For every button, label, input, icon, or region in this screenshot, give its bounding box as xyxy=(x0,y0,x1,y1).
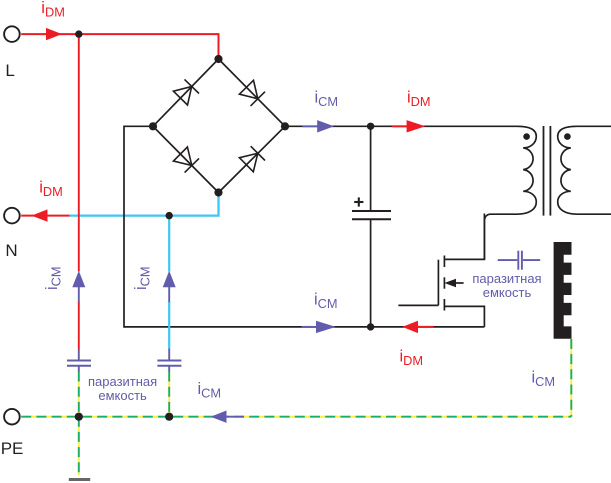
channel source segment xyxy=(443,299,445,311)
transformer T1 secondary xyxy=(558,126,611,214)
arrow iCM up left xyxy=(72,271,85,287)
node bridge right xyxy=(281,122,289,130)
wire DC+ rail xyxy=(285,125,517,127)
node PE junction 2 xyxy=(165,413,173,421)
ground symbol xyxy=(69,478,90,481)
wire ground dashed: heatsink down xyxy=(570,339,572,417)
wire leakage path from L (red vertical) xyxy=(78,34,80,271)
wire ground dashed: PE horizontal xyxy=(21,416,571,418)
terminal PE xyxy=(4,409,20,425)
svg-text:емкость: емкость xyxy=(98,388,147,403)
diode D3 xyxy=(173,147,199,173)
gate lead xyxy=(398,304,438,306)
wire violet lead to cap 1 xyxy=(78,350,80,360)
svg-text:PE: PE xyxy=(1,439,24,458)
arrow iCM right on return xyxy=(302,326,317,328)
parasitic capacitor 1 plates xyxy=(67,360,91,362)
wire N cyan to bridge bottom xyxy=(70,193,219,216)
node primary phase dot xyxy=(523,133,530,140)
terminal N xyxy=(4,208,20,224)
diode D2 xyxy=(239,80,265,106)
svg-text:паразитная: паразитная xyxy=(88,374,157,389)
node L junction xyxy=(75,30,82,37)
svg-text:паразитная: паразитная xyxy=(472,271,541,286)
body arrow line xyxy=(454,282,464,284)
arrow iDM on L wire xyxy=(46,28,62,40)
channel body segment xyxy=(443,277,445,288)
wire violet tail below arrow 1 xyxy=(78,286,80,302)
heatsink xyxy=(554,242,572,339)
node bridge bottom xyxy=(214,188,222,196)
capacitor bulk leads xyxy=(370,126,372,210)
arrow iDM left on N wire xyxy=(32,209,48,221)
wire N red segment xyxy=(21,215,69,217)
arrow iCM left on PE line xyxy=(224,416,244,418)
wire leakage path 2 (cyan vertical) xyxy=(168,216,170,272)
diode D4 xyxy=(239,146,265,172)
wire ground dashed: cap1 down xyxy=(78,372,80,417)
wire L to bridge top (red) xyxy=(21,34,218,56)
parasitic capacitor 2 plates xyxy=(157,360,181,362)
terminal L xyxy=(4,26,20,42)
wire return path (black) xyxy=(124,126,484,327)
wire violet lead to cap 2 xyxy=(168,349,170,360)
wire violet tail below arrow 2 xyxy=(168,286,170,302)
node PE junction 1 xyxy=(75,413,83,421)
transistor Q1 MOSFET xyxy=(398,214,484,327)
svg-text:L: L xyxy=(5,61,14,80)
gate bar xyxy=(437,260,439,306)
node secondary phase dot xyxy=(564,133,571,140)
capacitor bulk plates xyxy=(352,210,391,212)
label plus xyxy=(354,197,363,206)
source lead xyxy=(444,306,484,327)
diode D1 xyxy=(173,79,199,105)
node bridge top xyxy=(214,55,222,63)
transformer core xyxy=(543,126,545,216)
channel drain segment xyxy=(443,256,445,268)
transformer T1 primary xyxy=(484,126,536,259)
arrow iDM right on DC+ xyxy=(392,125,408,127)
node return cap junction xyxy=(367,323,374,330)
wire ground dashed: cap2 down xyxy=(168,372,170,417)
arrow iCM up right xyxy=(163,271,176,287)
arrow iDM left on return xyxy=(414,326,434,328)
bridge rectifier sides xyxy=(153,59,285,193)
arrow iCM right on DC+ xyxy=(302,125,318,127)
node bridge left xyxy=(149,122,157,130)
drain lead xyxy=(444,214,484,260)
svg-text:емкость: емкость xyxy=(483,285,532,300)
capacitor parasitic MOSFET (violet) xyxy=(498,251,541,270)
svg-text:N: N xyxy=(5,241,17,260)
node N line junction xyxy=(166,212,173,219)
wire ground dashed: earth stub xyxy=(78,417,80,475)
node bulk cap top xyxy=(367,123,374,130)
body arrow head xyxy=(444,279,456,288)
